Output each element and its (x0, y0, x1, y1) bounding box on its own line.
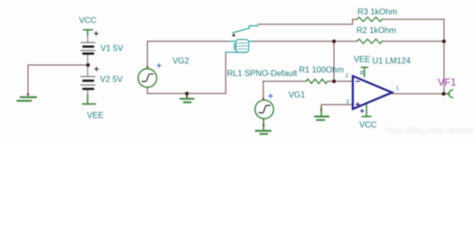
svg-text:VEE: VEE (354, 54, 371, 64)
svg-text:VEE: VEE (87, 110, 104, 120)
svg-text:1: 1 (396, 86, 399, 92)
svg-text:V1 5V: V1 5V (101, 43, 124, 53)
svg-text:RL1 SPNO-Default: RL1 SPNO-Default (227, 68, 298, 78)
svg-text:VF1: VF1 (438, 78, 457, 89)
svg-text:VCC: VCC (359, 119, 377, 129)
svg-text:VCC: VCC (79, 15, 97, 25)
svg-text:R2 1kOhm: R2 1kOhm (357, 25, 397, 35)
svg-text:R1 100Ohm: R1 100Ohm (299, 64, 344, 74)
svg-text:VG2: VG2 (173, 56, 190, 66)
svg-text:V2 5V: V2 5V (100, 74, 123, 84)
svg-text:https://blog.csdn.net/weixin_4: https://blog.csdn.net/weixin_42 (386, 126, 474, 135)
svg-text:R3 1kOhm: R3 1kOhm (358, 7, 398, 17)
svg-text:U1 LM124: U1 LM124 (372, 55, 411, 65)
svg-text:3: 3 (346, 100, 349, 106)
svg-text:VG1: VG1 (289, 89, 306, 99)
svg-text:2: 2 (345, 74, 348, 80)
